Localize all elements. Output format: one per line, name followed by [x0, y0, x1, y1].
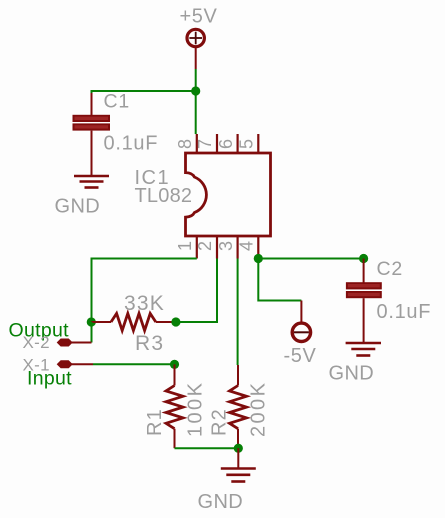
node G junction	[234, 444, 243, 453]
svg-text:TL082: TL082	[135, 185, 193, 207]
node E junction at C2	[359, 254, 368, 263]
op-amp IC1 body	[186, 153, 271, 236]
pin 1	[196, 236, 198, 259]
pin 6	[237, 134, 239, 153]
wire node G to ground	[237, 448, 239, 468]
svg-text:5: 5	[237, 139, 257, 149]
pin 3	[237, 236, 239, 259]
svg-text:33K: 33K	[124, 292, 165, 315]
svg-text:1: 1	[175, 241, 195, 251]
svg-text:6: 6	[216, 139, 236, 149]
capacitor C2	[346, 259, 382, 343]
wire +5V to node A	[195, 69, 197, 91]
pin 2	[216, 236, 218, 259]
svg-text:R3: R3	[135, 332, 164, 355]
node D junction at pin 4	[254, 254, 263, 263]
node B junction	[87, 317, 96, 326]
svg-text:R1: R1	[144, 408, 166, 436]
pad X-2	[57, 339, 92, 347]
pin 5	[257, 134, 259, 153]
svg-text:R2: R2	[209, 408, 231, 436]
svg-text:Input: Input	[27, 368, 72, 390]
svg-text:7: 7	[195, 139, 215, 149]
svg-text:200K: 200K	[248, 381, 270, 437]
wire node A to pin 8	[195, 91, 197, 134]
pad X-1	[57, 360, 93, 368]
wire pin 1 to node B	[92, 259, 197, 323]
supply +5V symbol	[187, 29, 204, 69]
capacitor C1	[73, 93, 111, 175]
svg-text:C2: C2	[377, 258, 404, 280]
ground symbol at C2	[346, 343, 381, 356]
node A junction	[191, 86, 200, 95]
svg-text:X-2: X-2	[23, 333, 50, 352]
wire pin 4 to -5V supply	[258, 259, 301, 301]
pin 7	[216, 134, 218, 153]
resistor R1	[166, 364, 183, 448]
resistor R3	[91, 314, 176, 331]
wire pin 4 to C2	[258, 258, 363, 260]
node F junction	[170, 360, 179, 369]
svg-text:4: 4	[237, 241, 257, 251]
wire pin 3 to R2	[237, 259, 239, 366]
pin 4	[257, 236, 259, 259]
wire X-1 to node F	[93, 363, 175, 365]
ground symbol at C1	[74, 176, 109, 188]
svg-text:8: 8	[175, 139, 195, 149]
supply -5V symbol	[292, 301, 310, 342]
wire node A to C1	[92, 91, 196, 94]
svg-text:GND: GND	[55, 196, 101, 218]
svg-text:C1: C1	[104, 91, 131, 113]
wire pin 2 to node C	[176, 259, 217, 323]
node C junction	[171, 317, 180, 326]
wire node B to X-2	[91, 322, 93, 343]
ground symbol at bottom	[221, 469, 256, 482]
resistor R2	[230, 365, 247, 448]
svg-text:0.1uF: 0.1uF	[104, 133, 159, 155]
svg-text:GND: GND	[198, 491, 244, 513]
svg-text:GND: GND	[329, 363, 375, 385]
svg-text:-5V: -5V	[284, 345, 317, 367]
wire R1 to node G	[175, 447, 239, 449]
pin 8	[196, 134, 198, 153]
svg-text:2: 2	[195, 241, 215, 251]
svg-text:+5V: +5V	[180, 6, 218, 28]
svg-text:100K: 100K	[185, 381, 207, 437]
svg-text:0.1uF: 0.1uF	[377, 301, 432, 323]
svg-text:3: 3	[216, 241, 236, 251]
